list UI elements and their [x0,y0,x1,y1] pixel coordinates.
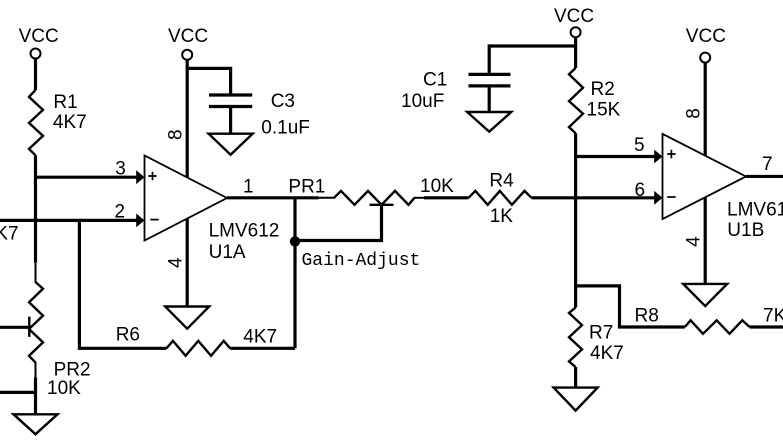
wire VCC1 to R1 [34,59,37,91]
wire thin lead into PR1 [319,197,336,199]
ground symbol (PR2) [14,414,58,434]
op-amp U1B [663,134,747,219]
wire rail branch to R8 [576,286,685,327]
wire PR1 to R4 [414,197,424,199]
wire R6 to output node [230,347,295,350]
wire output node down to feedback [293,198,296,348]
svg-text:C1: C1 [423,70,447,91]
svg-text:LMV612: LMV612 [209,221,280,242]
svg-text:1K: 1K [490,206,514,227]
resistor R8 [685,320,750,334]
svg-text:C3: C3 [271,91,295,112]
wire PR1 to R4 (thick) [424,196,469,199]
potentiometer PR2 wiper bar [28,317,30,337]
wire U1A output pin 1 [227,196,319,199]
resistor R2 [569,68,583,133]
svg-text:VCC: VCC [686,26,726,47]
resistor R1 [29,90,43,155]
svg-text:8: 8 [166,129,187,140]
svg-text:R8: R8 [635,306,659,327]
wire R4 to U1B pin6 (inverting input) [532,196,656,199]
svg-text:2: 2 [115,202,126,223]
svg-text:1: 1 [243,177,254,198]
wire PR2 lead to ground (thick) [34,378,37,415]
ground symbol (U1B) [683,284,727,306]
wire VCC branch to C1 [489,46,575,73]
svg-text:0.1uF: 0.1uF [261,118,310,139]
wire C3 branch from pin8 rail [187,68,230,93]
svg-text:R6: R6 [116,325,140,346]
svg-text:6: 6 [635,180,646,201]
svg-text:8: 8 [683,108,704,119]
wire VCC to R2 [574,37,577,68]
svg-text:Gain-Adjust: Gain-Adjust [302,251,421,271]
svg-text:4K7: 4K7 [243,327,277,348]
svg-text:U1A: U1A [209,242,246,263]
wire R7 to ground [574,367,577,388]
svg-text:R2: R2 [591,79,615,100]
ground symbol (C1) [467,112,511,132]
svg-text:4: 4 [683,236,704,247]
svg-text:4K7: 4K7 [590,343,624,364]
wire node to pin3 (non-inverting input U1A) [34,176,138,179]
wire rail to pin5 (non-inverting input U1B) [574,155,656,158]
resistor R6 [167,341,231,356]
wire U1B output pin 7 [746,175,783,178]
ground symbol (C3) [209,134,253,155]
op-amp U1A [145,156,228,241]
power VCC net symbol (right rail) [554,6,594,37]
wire R1 to PR2 (left vertical rail) [34,155,37,262]
svg-text:R7: R7 [589,323,613,344]
svg-text:U1B: U1B [727,220,764,241]
resistor R4 [469,191,532,205]
svg-text:10K: 10K [420,176,454,197]
wire PR2 to ground [35,362,37,378]
potentiometer PR1 wiper bar [370,204,394,206]
svg-text:15K: 15K [587,100,621,121]
arrowhead pin5 [654,150,662,164]
node junction dot (Gain-Adjust) [290,236,300,246]
wire from left edge to pin2 (inverting input U1A) [0,219,138,222]
svg-text:PR1: PR1 [288,177,325,198]
power VCC net symbol (U1A pin8) [168,26,208,60]
wire R2 to R7 (right vertical rail) [574,133,577,307]
wire wiper PR2 to left edge [0,326,28,329]
svg-text:R1: R1 [53,92,77,113]
feedback wire pin2 down to R6 [79,220,166,348]
wire PR1 wiper down and left to node [295,205,382,241]
wire bottom-left horizontal to left edge [0,391,37,394]
wire U1B pin 4 to ground [704,197,707,284]
resistor R7 [569,308,582,368]
svg-text:4K7: 4K7 [0,224,19,245]
svg-text:3: 3 [115,159,126,180]
wire U1A pin 4 to ground [186,219,189,307]
capacitor C1 [469,74,511,112]
svg-text:7K5: 7K5 [763,306,783,327]
svg-text:VCC: VCC [168,26,208,47]
arrowhead pin6 [654,191,662,205]
svg-text:5: 5 [634,135,645,156]
svg-text:10uF: 10uF [401,91,444,112]
svg-text:VCC: VCC [19,26,59,47]
svg-text:LMV612: LMV612 [727,200,783,221]
capacitor C3 [209,95,252,134]
svg-text:7: 7 [762,154,773,175]
wire VCC to U1B pin 8 [704,63,707,156]
ground symbol (U1A) [165,307,209,329]
power VCC net symbol (left rail) [19,26,59,59]
svg-text:10K: 10K [47,378,81,399]
svg-text:R4: R4 [489,171,514,192]
potentiometer PR2 body [29,282,43,363]
wire R8 to right edge [750,325,783,328]
svg-text:4K7: 4K7 [53,112,87,133]
potentiometer PR1 body [334,191,415,205]
wire thin lead into PR2 [35,263,37,283]
svg-text:4: 4 [166,257,187,268]
wire VCC to U1A pin 8 [186,60,189,178]
ground symbol (R7) [554,388,598,411]
arrowhead pin2 [136,214,144,228]
svg-text:VCC: VCC [554,6,594,27]
arrowhead pin3 [136,170,144,184]
power VCC net symbol (U1B pin8) [686,26,726,63]
